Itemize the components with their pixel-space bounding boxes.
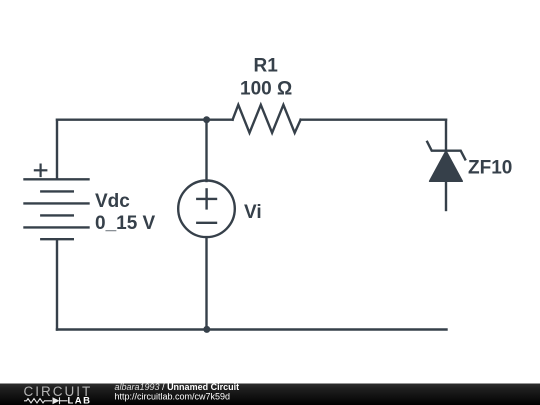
zener diode ZF10 cathode bar [427,142,465,160]
wire right branch vertical [445,120,447,151]
svg-text:0_15 V: 0_15 V [95,213,156,234]
svg-text:albara1993 / Unnamed Circuit: albara1993 / Unnamed Circuit [115,382,240,392]
battery Vdc plates [25,179,89,239]
svg-text:Vi: Vi [244,202,262,223]
wire bottom rail [57,328,447,330]
node junction top (R1 / Vi) [203,116,210,123]
resistor R1 [233,105,301,133]
voltage source Vi circle [178,181,235,238]
wire top rail right segment [301,118,446,120]
zener diode ZF10 anode triangle [430,151,463,181]
svg-text:ZF10: ZF10 [468,157,512,178]
wire top rail left segment [57,118,233,120]
battery plus sign [35,165,46,176]
svg-text:LAB: LAB [68,396,92,405]
svg-text:Vdc: Vdc [95,191,130,212]
footer logo symbol resistor-diode [24,397,68,404]
svg-text:http://circuitlab.com/cw7k59d: http://circuitlab.com/cw7k59d [115,392,231,402]
wire middle branch lower vertical [205,238,207,330]
wire zener anode stub [445,181,447,210]
wire left rail upper vertical [56,120,58,180]
svg-text:R1: R1 [254,55,279,76]
wire left rail lower vertical [56,239,58,329]
voltage source Vi minus sign [197,222,216,224]
wire middle branch upper vertical [205,120,207,181]
node junction bottom (Vi / bottom rail) [203,326,210,333]
voltage source Vi plus sign [197,189,216,208]
svg-text:100 Ω: 100 Ω [240,78,292,99]
